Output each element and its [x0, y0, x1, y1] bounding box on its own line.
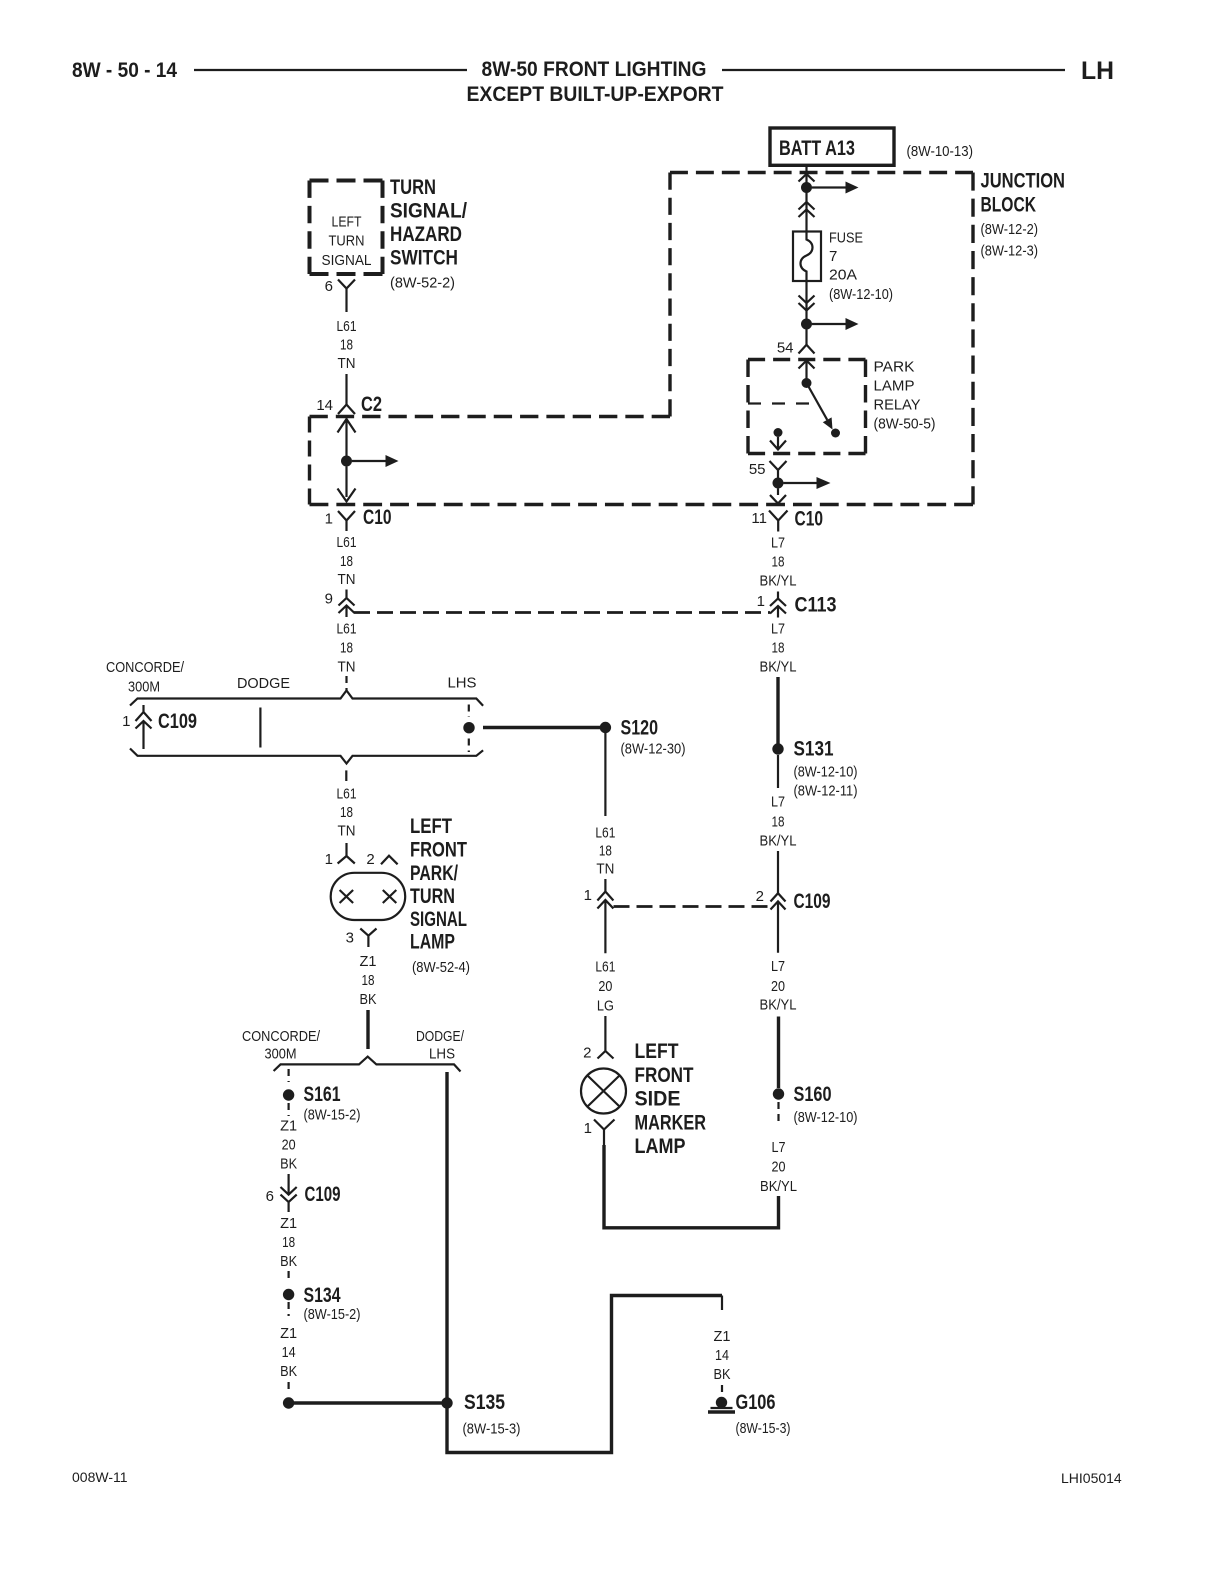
svg-text:20A: 20A [829, 267, 857, 284]
svg-text:18: 18 [340, 640, 353, 657]
svg-text:18: 18 [340, 337, 353, 354]
svg-text:LAMP: LAMP [874, 378, 915, 395]
svg-text:FRONT: FRONT [410, 839, 467, 862]
svg-text:(8W-15-2): (8W-15-2) [304, 1107, 361, 1124]
svg-text:7: 7 [829, 248, 837, 265]
svg-text:6: 6 [325, 278, 333, 295]
svg-text:HAZARD: HAZARD [390, 223, 462, 246]
svg-text:LH: LH [1081, 57, 1114, 85]
svg-text:54: 54 [777, 340, 794, 357]
svg-text:6: 6 [266, 1188, 274, 1205]
svg-text:18: 18 [772, 640, 785, 657]
svg-text:L7: L7 [772, 1139, 786, 1156]
svg-text:L7: L7 [771, 621, 785, 638]
svg-text:TN: TN [338, 355, 356, 372]
svg-text:Z1: Z1 [280, 1215, 297, 1232]
svg-text:1: 1 [757, 593, 765, 610]
svg-text:LG: LG [597, 998, 614, 1015]
svg-text:LHS: LHS [429, 1045, 455, 1062]
svg-text:2: 2 [756, 888, 764, 905]
svg-text:C2: C2 [361, 393, 382, 416]
svg-text:(8W-12-10): (8W-12-10) [829, 286, 893, 303]
svg-text:(8W-52-2): (8W-52-2) [390, 275, 455, 292]
svg-text:L61: L61 [337, 621, 357, 638]
svg-text:1: 1 [325, 851, 333, 868]
svg-text:S131: S131 [794, 738, 834, 761]
svg-text:SIGNAL/: SIGNAL/ [390, 200, 467, 223]
svg-text:BK: BK [280, 1363, 297, 1380]
svg-text:(8W-12-3): (8W-12-3) [981, 243, 1039, 260]
svg-text:BK/YL: BK/YL [760, 659, 797, 676]
svg-text:TN: TN [596, 861, 614, 878]
svg-text:CONCORDE/: CONCORDE/ [106, 659, 185, 676]
svg-text:BK/YL: BK/YL [760, 997, 797, 1014]
svg-text:C109: C109 [158, 710, 197, 733]
svg-text:8W-50 FRONT LIGHTING: 8W-50 FRONT LIGHTING [482, 58, 707, 81]
svg-text:TURN: TURN [329, 233, 365, 250]
svg-text:L7: L7 [771, 958, 785, 975]
svg-text:S135: S135 [464, 1391, 505, 1414]
svg-text:(8W-10-13): (8W-10-13) [907, 143, 974, 160]
svg-text:BK/YL: BK/YL [760, 573, 797, 590]
svg-text:TN: TN [338, 659, 356, 676]
svg-text:14: 14 [316, 397, 333, 414]
svg-text:18: 18 [599, 843, 612, 860]
svg-text:RELAY: RELAY [874, 397, 921, 414]
svg-text:8W - 50 - 14: 8W - 50 - 14 [72, 59, 177, 82]
svg-text:S134: S134 [304, 1284, 341, 1307]
svg-text:14: 14 [715, 1347, 729, 1364]
svg-text:LEFT: LEFT [635, 1040, 679, 1063]
svg-text:PARK/: PARK/ [410, 862, 458, 885]
svg-text:L7: L7 [771, 794, 785, 811]
svg-text:TN: TN [338, 823, 356, 840]
svg-text:(8W-12-2): (8W-12-2) [981, 221, 1039, 238]
svg-text:L61: L61 [337, 534, 357, 551]
svg-text:1: 1 [325, 511, 333, 528]
svg-text:BLOCK: BLOCK [981, 193, 1037, 216]
svg-text:Z1: Z1 [360, 953, 377, 970]
svg-text:18: 18 [772, 814, 785, 831]
svg-text:C10: C10 [795, 508, 824, 531]
svg-text:11: 11 [751, 510, 767, 527]
svg-text:C113: C113 [795, 594, 837, 617]
svg-text:20: 20 [598, 978, 612, 995]
svg-text:LAMP: LAMP [635, 1135, 686, 1158]
svg-text:(8W-52-4): (8W-52-4) [412, 959, 470, 976]
svg-text:(8W-15-3): (8W-15-3) [463, 1421, 521, 1438]
svg-text:(8W-12-10): (8W-12-10) [794, 1109, 858, 1126]
svg-text:55: 55 [749, 461, 766, 478]
svg-text:18: 18 [282, 1234, 295, 1251]
svg-text:LEFT: LEFT [332, 214, 362, 231]
svg-text:BK: BK [714, 1366, 731, 1383]
svg-text:9: 9 [325, 591, 333, 608]
svg-text:LHI05014: LHI05014 [1061, 1470, 1122, 1486]
svg-text:C109: C109 [305, 1183, 341, 1206]
svg-text:Z1: Z1 [280, 1118, 297, 1135]
svg-text:LEFT: LEFT [410, 815, 452, 838]
svg-text:LAMP: LAMP [410, 931, 455, 954]
svg-text:EXCEPT BUILT-UP-EXPORT: EXCEPT BUILT-UP-EXPORT [467, 83, 724, 106]
svg-text:SIGNAL: SIGNAL [410, 908, 467, 931]
svg-text:BK: BK [280, 1156, 297, 1173]
svg-text:300M: 300M [265, 1045, 297, 1062]
svg-text:C109: C109 [794, 890, 831, 913]
svg-text:G106: G106 [736, 1391, 776, 1414]
svg-text:L61: L61 [337, 786, 357, 803]
svg-text:S160: S160 [794, 1083, 832, 1106]
svg-text:(8W-15-2): (8W-15-2) [304, 1306, 361, 1323]
svg-text:20: 20 [282, 1137, 296, 1154]
svg-text:1: 1 [584, 1120, 592, 1137]
svg-text:L61: L61 [337, 318, 357, 335]
svg-text:L61: L61 [595, 959, 615, 976]
svg-text:(8W-15-3): (8W-15-3) [736, 1420, 791, 1437]
svg-text:S120: S120 [621, 717, 659, 740]
svg-text:FRONT: FRONT [635, 1064, 694, 1087]
svg-text:008W-11: 008W-11 [72, 1469, 128, 1485]
svg-text:DODGE: DODGE [237, 675, 290, 692]
svg-text:2: 2 [583, 1045, 591, 1062]
svg-text:Z1: Z1 [280, 1325, 297, 1342]
svg-text:TN: TN [338, 571, 356, 588]
svg-text:1: 1 [122, 713, 130, 730]
svg-text:SIDE: SIDE [635, 1088, 681, 1111]
svg-text:LHS: LHS [448, 675, 477, 692]
svg-text:SIGNAL: SIGNAL [322, 252, 372, 269]
svg-text:S161: S161 [304, 1083, 341, 1106]
svg-text:C10: C10 [363, 506, 392, 529]
svg-text:TURN: TURN [410, 885, 455, 908]
svg-text:FUSE: FUSE [829, 230, 863, 247]
svg-text:18: 18 [340, 553, 353, 570]
svg-text:BK/YL: BK/YL [760, 833, 797, 850]
svg-text:18: 18 [772, 554, 785, 571]
svg-text:TURN: TURN [390, 176, 436, 199]
svg-text:BATT A13: BATT A13 [779, 137, 855, 160]
svg-text:300M: 300M [128, 679, 160, 696]
svg-text:20: 20 [772, 1159, 786, 1176]
svg-text:14: 14 [282, 1344, 296, 1361]
svg-text:BK/YL: BK/YL [760, 1178, 797, 1195]
svg-text:(8W-12-10): (8W-12-10) [794, 764, 858, 781]
svg-text:MARKER: MARKER [635, 1111, 707, 1134]
svg-text:L7: L7 [771, 535, 785, 552]
svg-text:PARK: PARK [874, 359, 915, 376]
svg-text:18: 18 [362, 972, 375, 989]
svg-text:3: 3 [346, 930, 354, 947]
svg-text:(8W-12-30): (8W-12-30) [621, 741, 686, 758]
svg-text:2: 2 [366, 851, 374, 868]
svg-text:L61: L61 [595, 825, 615, 842]
svg-text:(8W-50-5): (8W-50-5) [874, 416, 936, 433]
svg-text:DODGE/: DODGE/ [416, 1028, 465, 1045]
svg-text:BK: BK [360, 991, 377, 1008]
svg-text:1: 1 [584, 887, 592, 904]
svg-text:JUNCTION: JUNCTION [981, 170, 1066, 193]
svg-text:20: 20 [771, 978, 785, 995]
svg-text:(8W-12-11): (8W-12-11) [794, 783, 858, 800]
svg-text:Z1: Z1 [714, 1328, 731, 1345]
svg-text:BK: BK [280, 1253, 297, 1270]
svg-text:18: 18 [340, 804, 353, 821]
svg-text:SWITCH: SWITCH [390, 247, 458, 270]
svg-text:CONCORDE/: CONCORDE/ [242, 1028, 321, 1045]
